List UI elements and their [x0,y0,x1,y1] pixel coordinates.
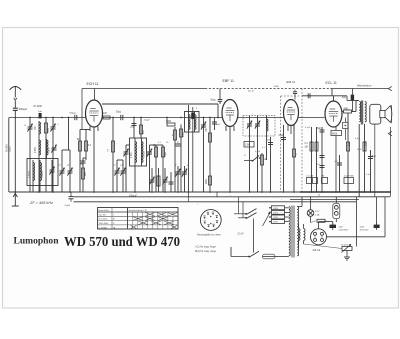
svg-text:0,1µF: 0,1µF [355,138,361,140]
capacitor C31 [170,172,172,192]
capacitor C7 [82,158,84,192]
svg-text:7500: 7500 [48,147,50,153]
resistor R12 740 [209,118,211,193]
coil L4 [32,160,34,192]
svg-text:240V: 240V [273,208,279,210]
wire x68 drop from main [68,118,70,151]
svg-text:0.950: 0.950 [35,147,37,153]
capacitor C21 25uF [283,125,285,192]
svg-text:25µF: 25µF [279,135,285,137]
wire junction x62 [62,149,70,151]
svg-text:+350/385V: +350/385V [338,229,349,231]
trimmer C18 [249,116,251,193]
svg-text:4,5µF: 4,5µF [65,205,71,207]
capacitor antenna 500pF [13,107,18,109]
capacitor C35 block [191,113,194,120]
svg-text:7500: 7500 [48,127,50,133]
svg-text:1M: 1M [305,147,308,149]
terminal chevron top [388,86,391,90]
resistor R9 series [167,123,175,126]
svg-text:4MΩ: 4MΩ [344,108,349,110]
electrolytic 8uF [330,225,337,228]
svg-text:(2) W: (2) W [238,233,245,236]
trimmer C30 [164,168,166,192]
svg-text:ZF = 468 kHz: ZF = 468 kHz [29,201,53,205]
wire drops to mains switch [238,197,240,214]
voltage selector [272,206,285,210]
coil L9 [194,112,196,133]
resistor heater [317,219,325,222]
wire main signal line [9,117,86,119]
trimmer C4 [51,160,53,192]
svg-text:0.1 4M: 0.1 4M [307,176,314,178]
wire pin join [80,129,90,131]
trimmer C10 [125,145,127,192]
trimmer C12 [116,160,118,192]
coil L2 [39,140,41,155]
power transformer [289,207,290,256]
node antenna-main [15,117,17,119]
trimmer C5 [61,150,63,192]
capacitor C17 [214,118,216,131]
coil L8 [188,105,190,192]
svg-text:12•80: 12•80 [274,86,280,88]
pilot lamp [307,210,314,217]
svg-text:Bereich kHz: Bereich kHz [99,209,109,212]
capacitor C14 [176,143,181,145]
dashed box IF3 [243,116,275,137]
junction dots main line [29,117,31,119]
capacitor C34 4.5uF [70,192,72,196]
svg-text:Fassungsbild von unten: Fassungsbild von unten [197,234,222,237]
IF transformer 2 box [185,112,200,133]
svg-text:L: L [113,214,114,216]
svg-text:Dr 2200: Dr 2200 [34,105,43,108]
svg-text:ECH 11: ECH 11 [87,82,99,86]
wire heater to entbrummer [304,244,343,249]
resistor R21 series grid [344,110,352,113]
svg-text:0,1µF: 0,1µF [255,151,261,153]
tube EBF11 [222,100,238,127]
wire right vert [356,197,358,247]
capacitor EM top [294,90,296,92]
resistor R6 [140,118,142,139]
resistor R16 [293,125,295,192]
wire upper line [102,103,218,105]
trimmer C29 [151,168,153,192]
electrolytic 16uF [374,225,380,228]
resistor R23 T6 [112,118,114,193]
svg-text:50µµ: 50µµ [116,112,122,114]
svg-text:1M: 1M [321,176,324,178]
resistor R3 [85,130,87,161]
fuse box small [343,122,349,128]
tube EM11 [284,100,299,126]
capacitor on coupling line [307,93,309,98]
svg-text:0.0203: 0.0203 [29,170,31,178]
dial lamps [333,203,340,218]
svg-text:0.2M: 0.2M [245,145,250,147]
trimmer C32 [177,166,179,192]
terminal chevron bottom [388,131,391,135]
resistor R11 [180,125,182,193]
svg-text:EM 11: EM 11 [287,80,296,84]
capacitor 500 series on main line [74,115,76,120]
svg-text:1560–4600: 1560–4600 [99,223,108,225]
wire speaker down [374,124,376,197]
band switch table [98,208,179,230]
resistor R18 pair [311,127,313,192]
wire plate to transformer [347,100,359,102]
svg-text:7500/2: 7500/2 [143,150,145,158]
resistor R1 [45,118,47,193]
speaker cone [385,106,391,123]
svg-text:Wechselstrom: Wechselstrom [357,85,372,88]
svg-text:AZ 11: AZ 11 [313,248,321,252]
svg-text:2000: 2000 [9,146,12,152]
svg-text:6–18 MHz: 6–18 MHz [99,227,108,229]
wire top AVC line [82,88,205,90]
svg-text:ECL 11: ECL 11 [326,81,337,85]
coil L6 [134,138,136,192]
svg-text:500µµF: 500µµF [19,108,28,111]
resistor R8 [162,145,164,192]
resistor R5 series [103,116,110,119]
svg-text:EBF 11: EBF 11 [223,79,234,83]
wire h join mid [117,159,123,161]
resistor R4 680 [82,168,85,179]
svg-text:5µF: 5µF [317,128,322,130]
coil L1 [38,121,40,192]
wire ECL top [333,96,335,101]
wire rail stub right [290,199,359,201]
svg-text:0,3A: 0,3A [315,214,320,217]
capacitor C28 5uF electrolytic [370,150,372,192]
resistor R2 50k [79,130,81,193]
antenna [10,86,22,89]
svg-text:16µF: 16µF [360,226,366,228]
tube ECH11 pins [89,127,91,132]
trimmer C1 [29,118,31,193]
trimmer C33 [184,166,186,192]
svg-text:7500/2: 7500/2 [42,170,44,178]
capacitor 1uF series [39,113,42,118]
trimmer C6 [69,150,71,192]
svg-text:W 420Ω: W 420Ω [341,244,349,246]
capacitor C24 input [321,127,323,192]
svg-text:B(2) für mag. Auge: B(2) für mag. Auge [195,250,217,253]
tube socket view [200,210,221,231]
dashed rail x302 [301,89,303,193]
svg-text:0.1µF 5M: 0.1µF 5M [344,176,353,178]
switch lower + fuse [231,256,249,258]
switch SW-A [244,160,252,162]
output transformer [359,102,360,122]
capacitor C26 [320,165,325,167]
capacitor C27 [339,155,341,192]
wire heater rail A [74,196,391,198]
mains switch [234,213,246,215]
ground chassis [14,192,16,206]
shield box input coils [27,159,58,186]
coil L3 [46,139,48,158]
resistor R19 500 [347,113,349,192]
coil L10 [266,116,268,161]
resistor R13 1M [209,176,212,185]
svg-text:50µµF: 50µµF [144,120,151,122]
svg-text:6,3V: 6,3V [315,211,320,213]
svg-text:WD 570 und WD 470: WD 570 und WD 470 [64,234,180,249]
wire heater rail B [74,201,357,203]
entbrummer [342,247,352,251]
svg-text:Schalterstellung 1–10: Schalterstellung 1–10 [129,209,147,212]
svg-text:500µµ: 500µµ [70,113,77,115]
heater windings [299,229,301,241]
svg-text:150–350: 150–350 [99,214,106,216]
wire drop x218 [217,104,219,118]
resistor boxes row [307,178,312,184]
svg-text:+8µF: +8µF [338,226,344,228]
capacitor C9 [133,118,135,139]
svg-text:50: 50 [318,195,320,197]
svg-text:100µµF: 100µµF [129,196,137,198]
coil L5 [39,160,41,192]
resistor R14 0.2M box [244,142,254,148]
wire ground bus [9,191,300,193]
capacitor C20 [270,137,272,192]
wire antenna down [14,110,16,192]
svg-text:220V: 220V [273,212,279,214]
resistor R7 [155,145,157,192]
dashed drop EM11 [280,96,282,192]
capacitor C16 grid [219,89,221,100]
wire box to tube top [94,89,96,101]
tube EM11 pins [287,125,289,132]
svg-text:1MΩ: 1MΩ [206,179,208,184]
top coupling line [302,95,347,97]
svg-text:1µF: 1µF [38,111,42,113]
selector arrow [263,213,271,227]
tube ECL11 [325,101,342,127]
resistor R17 1M box [331,131,342,136]
svg-text:50µF: 50µF [165,151,167,157]
svg-text:Lumophon: Lumophon [14,236,59,246]
svg-text:0,2µF: 0,2µF [305,127,311,129]
wire AZ out [327,236,386,238]
junction dots bus [14,191,16,193]
coil L7 [141,138,143,166]
svg-text:5µF: 5µF [342,97,347,99]
svg-text:0.010: 0.010 [131,152,133,158]
trimmer C13 [122,160,124,192]
resistor R10 [174,127,176,192]
svg-text:125V: 125V [273,217,279,219]
resistor R22 [158,168,160,192]
svg-text:W1M: W1M [332,134,337,136]
svg-text:110V: 110V [273,222,278,224]
svg-text:517–1500: 517–1500 [99,219,107,221]
IF transformer 1 box [130,138,147,166]
capacitor C25 [320,155,325,157]
tube EBF11 pins [225,126,227,131]
wire switch link [253,219,255,253]
svg-text:3000: 3000 [166,121,172,123]
trimmer C11 [149,145,151,192]
wire sec top [297,206,302,208]
svg-text:450/550V: 450/550V [360,229,370,231]
speaker frame [370,104,381,124]
trimmer C2 [52,118,54,193]
left rail Bv600 [8,118,10,193]
rectifier AZ11 [311,229,327,245]
wire box left edge [81,89,83,130]
svg-text:5000: 5000 [365,140,367,146]
trimmer C15 [203,118,205,193]
wire stub to table [188,192,190,202]
trimmer C3 [52,147,57,149]
speaker voice coil [380,111,385,118]
svg-text:0,1µF: 0,1µF [366,174,372,176]
svg-text:+(1) für mag. Auge: +(1) für mag. Auge [195,246,216,249]
tube ECH11 [86,100,103,127]
capacitor C8 series 50 [120,115,122,120]
trimmer C19 [257,116,259,193]
resistor R20 5000 [364,124,366,192]
svg-text:50µµ: 50µµ [211,100,217,102]
svg-text:5µF: 5µF [372,156,377,158]
resistor R15 [261,153,263,192]
wire to transformer [352,111,357,113]
svg-text:(zu 1): (zu 1) [248,91,254,93]
capacitor C23 5uF electrolytic [351,95,354,101]
